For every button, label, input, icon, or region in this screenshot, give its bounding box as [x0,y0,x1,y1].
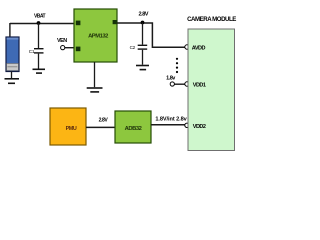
MCU PMU box [50,108,86,145]
junction 2.8V [141,21,145,25]
pin IN [76,21,81,26]
svg-text:VBAT: VBAT [34,14,46,20]
ground (C1) [33,69,46,74]
wire VEN to EN pin [65,47,77,49]
wire battery to ground [11,72,13,79]
wire dotted 2.8V to 1.8v [176,58,178,73]
wire capacitor C1 stem [38,23,40,48]
wire 2.8V rail [117,23,185,47]
wire PMU to U2 [86,126,115,128]
pin VDD1 circle [185,82,189,86]
svg-text:ADB32: ADB32 [125,126,142,132]
pin VDD2 circle [185,123,189,127]
capacitor C1 [29,48,44,69]
svg-text:CAMERA MODULE: CAMERA MODULE [187,16,236,23]
pin 1.8v circle [170,82,174,86]
svg-text:C1: C1 [29,49,35,54]
wire VBAT rail [10,23,77,25]
wire U1 ground stem [94,62,96,87]
svg-text:VDD1: VDD1 [193,83,206,89]
pin VEN circle [61,46,65,50]
svg-text:2.8V: 2.8V [99,117,109,123]
wire U2 to VDD2 [151,124,185,126]
ground (C2) [136,65,149,71]
svg-text:VDD2: VDD2 [193,124,206,130]
svg-text:C2: C2 [130,45,136,50]
svg-text:1.8v: 1.8v [166,76,176,82]
svg-text:VEN: VEN [57,38,67,44]
regulator U2 ADB32 [115,111,151,143]
regulator U1 APM132 [74,9,117,62]
svg-text:APM132: APM132 [88,34,108,40]
pin OUT [113,20,117,24]
pin EN [76,47,81,52]
svg-text:1.8V/int 2.8v: 1.8V/int 2.8v [155,116,187,122]
svg-text:AVDD: AVDD [192,45,206,51]
svg-text:2.8V: 2.8V [139,12,149,18]
wire 1.8v stub [174,83,185,85]
wire capacitor C2 stem [142,23,144,45]
battery BT1 [6,37,19,72]
wire battery riser [9,23,11,38]
camera module box [188,29,235,151]
ground (U1) [87,87,103,93]
ground (battery) [5,78,20,84]
svg-text:PMU: PMU [66,126,77,132]
capacitor C2 [130,45,148,65]
junction VBAT [37,21,41,25]
pin AVDD circle [185,45,189,49]
